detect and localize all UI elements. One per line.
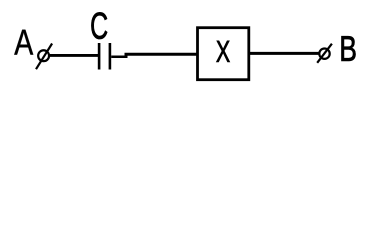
terminal B (circle with slash)	[317, 44, 332, 63]
element X box	[198, 28, 249, 80]
wire from capacitor C to element X (main)	[125, 53, 197, 56]
wire from terminal A to capacitor C	[49, 54, 99, 57]
capacitor C (two plates)	[99, 43, 110, 70]
wire from element X to terminal B	[250, 52, 320, 55]
wire from capacitor C to element X (stub)	[111, 55, 127, 58]
capacitor C value label	[91, 12, 107, 39]
node B label	[341, 36, 355, 61]
node A label	[14, 30, 33, 55]
element X label	[216, 41, 229, 62]
terminal A (circle with slash)	[36, 44, 52, 70]
